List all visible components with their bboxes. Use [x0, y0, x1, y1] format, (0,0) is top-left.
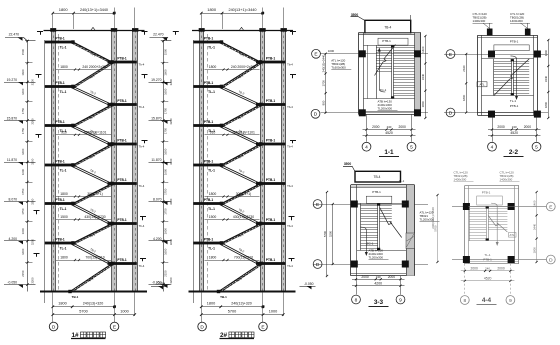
svg-text:3500: 3500 [344, 162, 352, 166]
bubble extension lines plan 2-2 [492, 115, 494, 141]
svg-text:Tb-4: Tb-4 [139, 264, 145, 268]
bottom dim rows plan 3-3 [352, 279, 405, 281]
side dim plan 2-2 x548.3 [548, 40, 550, 118]
svg-text:1800: 1800 [60, 192, 68, 196]
svg-text:D: D [314, 112, 318, 118]
svg-text:240: 240 [376, 275, 381, 279]
svg-text:3200: 3200 [169, 118, 173, 125]
svg-text:3200: 3200 [30, 79, 34, 86]
svg-text:3440: 3440 [532, 223, 536, 230]
svg-text:5: 5 [410, 145, 413, 151]
left wall 2# stair detail [200, 30, 204, 292]
svg-text:240 2000+2x300: 240 2000+2x300 [231, 65, 256, 69]
grid bubble 5 plan 2-2 [532, 142, 541, 151]
svg-text:E: E [261, 324, 264, 330]
side dim plan 3-3 x327.0 [326, 192, 328, 276]
svg-text:PTB-1: PTB-1 [55, 159, 64, 163]
svg-text:TL600x300: TL600x300 [331, 65, 346, 69]
stair flight TB-2 1# stair detail [73, 62, 112, 87]
svg-text:Tb-4: Tb-4 [139, 144, 145, 148]
svg-text:9: 9 [509, 298, 512, 304]
svg-text:PTB-1: PTB-1 [266, 99, 275, 103]
svg-text:1600: 1600 [164, 228, 168, 235]
svg-text:3200: 3200 [169, 277, 173, 284]
svg-text:D: D [449, 110, 453, 116]
svg-text:PTB-1: PTB-1 [204, 159, 213, 163]
svg-text:1460: 1460 [421, 46, 425, 53]
break line plan 2-2 [494, 59, 529, 96]
svg-text:3200: 3200 [169, 238, 173, 245]
svg-text:TB-4: TB-4 [384, 26, 391, 30]
svg-text:Tb-4: Tb-4 [287, 105, 293, 109]
roof slab line 1# stair detail [44, 30, 145, 32]
svg-text:240(13+1)=3440: 240(13+1)=3440 [431, 207, 435, 229]
svg-text:4520: 4520 [385, 131, 393, 135]
break line plan 1-1 [375, 45, 396, 76]
mid landing PTB-1 right 1# stair detail [108, 61, 137, 64]
treads left flight plan 4-4 [469, 208, 486, 210]
stair flight TB-4 1# stair detail [73, 105, 112, 126]
interior dim 2# stair detail y260.0 [205, 260, 260, 262]
svg-text:1600: 1600 [21, 168, 25, 175]
right wall 1# stair detail [133, 30, 137, 292]
mid landing PTB-4 right 2# stair detail [256, 182, 285, 185]
bubble extension lines plan 4-4 [464, 264, 466, 295]
grid bubble D plan 4-4 [546, 255, 555, 264]
svg-text:TB-1: TB-1 [72, 295, 79, 299]
svg-text:3200: 3200 [30, 158, 34, 165]
svg-text:5: 5 [535, 145, 538, 151]
stair flight TB-3 2# stair detail [222, 87, 261, 105]
grid bubble E plan 3-3 [313, 200, 322, 209]
column plan 2-2 2 [534, 51, 541, 58]
grid bubble 8 plan 4-4 [460, 296, 469, 305]
svg-text:ATL: ATL [510, 233, 515, 237]
svg-text:1800: 1800 [60, 256, 68, 260]
svg-text:910: 910 [210, 130, 216, 134]
svg-text:1000: 1000 [269, 309, 277, 313]
column plan 1-1 4 [414, 109, 421, 116]
direction arrow plan 3-3 [360, 227, 366, 255]
svg-text:D: D [200, 324, 204, 330]
grid line D plan 2-2 [444, 112, 548, 114]
svg-text:PTB-1: PTB-1 [204, 198, 213, 202]
ground line 1# stair detail [40, 291, 147, 293]
stair flight TB-1 2# stair detail [222, 204, 261, 224]
svg-text:D: D [316, 262, 320, 268]
svg-text:1400x300: 1400x300 [500, 177, 513, 181]
column plan 2-2 1 [488, 51, 495, 58]
svg-text:2000: 2000 [471, 267, 479, 271]
direction arrow plan 4-4 [491, 203, 497, 245]
interior dim 2# stair detail y69.5 [205, 69, 260, 71]
side dim plan 4-4 x536.6 [536, 192, 538, 262]
interior dim 2# stair detail y219.5 [205, 219, 260, 221]
svg-text:PTB-1: PTB-1 [510, 104, 519, 108]
svg-text:PTB-1: PTB-1 [483, 257, 492, 261]
svg-text:240: 240 [387, 125, 392, 129]
svg-text:3200: 3200 [30, 198, 34, 205]
svg-text:1600: 1600 [164, 148, 168, 155]
plan 1-1 well inner line [367, 45, 369, 99]
svg-text:8: 8 [463, 298, 466, 304]
svg-text:240 2000+2x300: 240 2000+2x300 [82, 65, 107, 69]
svg-text:19.270: 19.270 [151, 78, 161, 82]
stair well edges plan 2-2 [493, 59, 495, 96]
svg-text:PTB-1: PTB-1 [204, 237, 213, 241]
stair flight TB-3 2# stair detail [222, 243, 261, 264]
treads right flight plan 2-2 [513, 61, 529, 63]
svg-text:2000: 2000 [497, 125, 505, 129]
svg-text:1600: 1600 [21, 88, 25, 95]
svg-text:1600: 1600 [21, 148, 25, 155]
svg-text:1650(13)=1101: 1650(13)=1101 [232, 130, 255, 134]
floor landing PTB-3 left 1# stair detail [45, 124, 73, 127]
floor landing PTB-3 left 2# stair detail [193, 124, 221, 127]
svg-text:TL-1: TL-1 [208, 246, 215, 250]
svg-text:1000: 1000 [328, 49, 335, 53]
bottom dim row1 1# stair detail [53, 306, 115, 308]
stair well edges plan 3-3 [360, 203, 362, 250]
svg-text:11.870: 11.870 [7, 158, 17, 162]
svg-text:Tb-4: Tb-4 [139, 184, 145, 188]
svg-text:Tb-4: Tb-4 [287, 62, 293, 66]
middle wall 1# stair detail [112, 30, 116, 292]
svg-text:PTB-1: PTB-1 [510, 40, 519, 44]
handrail line 1# stair detail [58, 34, 60, 290]
svg-text:3200: 3200 [169, 158, 173, 165]
svg-text:1800: 1800 [209, 65, 217, 69]
svg-text:ZC-1: ZC-1 [380, 88, 387, 92]
svg-text:1600: 1600 [21, 248, 25, 255]
svg-text:1600: 1600 [164, 168, 168, 175]
extension line 2# stair detail [193, 40, 195, 303]
svg-text:1800: 1800 [207, 301, 215, 305]
treads right flight plan 4-4 [488, 208, 507, 210]
svg-text:PTB-1: PTB-1 [55, 237, 64, 241]
svg-text:1800: 1800 [421, 101, 425, 108]
svg-text:700(13)=910: 700(13)=910 [85, 256, 104, 260]
bottom dim rows plan 1-1 [363, 129, 416, 131]
svg-text:Tb-4: Tb-4 [139, 105, 145, 109]
svg-text:Tb-4: Tb-4 [287, 264, 293, 268]
svg-text:1600: 1600 [164, 248, 168, 255]
svg-text:2150: 2150 [21, 270, 25, 277]
svg-text:1750: 1750 [164, 127, 168, 134]
side dim plan 4-4 x437.5 [437, 195, 439, 262]
grid bubble E plan 1-1 [312, 49, 321, 58]
grid bubble 8 plan 3-3 [352, 295, 361, 304]
svg-text:3440: 3440 [544, 75, 548, 82]
elevation markers 1# stair detail [4, 78, 25, 86]
svg-text:1800: 1800 [544, 101, 548, 108]
stair flight TB-4 2# stair detail [219, 264, 261, 292]
bottom dim rows plan 4-4 [461, 270, 515, 272]
svg-text:8.070: 8.070 [9, 198, 18, 202]
side dim plan 3-3 x332.8 [332, 204, 334, 264]
grid bubble 4 plan 1-1 [362, 142, 371, 151]
svg-text:3200: 3200 [169, 79, 173, 86]
svg-text:D: D [52, 324, 56, 330]
svg-text:PTB-1: PTB-1 [372, 190, 381, 194]
mid landing PTB-2 right 2# stair detail [256, 103, 285, 106]
svg-text:1800: 1800 [60, 65, 68, 69]
svg-text:PTB-1: PTB-1 [117, 99, 126, 103]
floor landing PTB-2 left 2# stair detail [193, 85, 221, 88]
svg-text:TL-1: TL-1 [60, 246, 67, 250]
svg-text:1500: 1500 [164, 48, 168, 55]
svg-text:PTB-1: PTB-1 [266, 258, 275, 262]
svg-text:PTB-1: PTB-1 [117, 56, 126, 60]
svg-text:5700: 5700 [228, 309, 236, 313]
column plan 2-2 3 [488, 111, 495, 118]
svg-text:D: D [549, 257, 553, 263]
svg-text:240: 240 [512, 125, 517, 129]
svg-text:1400x300: 1400x300 [454, 177, 467, 181]
column plan 4-4 4 [508, 256, 515, 263]
ATL box plan 4-4 [509, 233, 517, 238]
stair flight TB-1 2# stair detail [222, 126, 261, 145]
landing beam outline plan 1-1 [378, 38, 408, 45]
svg-text:1000: 1000 [120, 309, 128, 313]
svg-text:1400x300: 1400x300 [510, 19, 523, 23]
svg-text:1600: 1600 [21, 228, 25, 235]
svg-text:E: E [314, 52, 317, 58]
svg-text:1800: 1800 [532, 247, 536, 254]
slab level symbols left [36, 75, 42, 78]
svg-text:ATL: ATL [479, 83, 484, 87]
svg-text:E: E [549, 204, 552, 210]
svg-text:19.270: 19.270 [7, 78, 17, 82]
mid landing PTB-5 right 1# stair detail [108, 222, 137, 225]
svg-text:TL-1: TL-1 [208, 207, 215, 211]
svg-text:TL-1: TL-1 [510, 99, 517, 103]
grid line E plan 1-1 [321, 53, 429, 55]
svg-text:4200: 4200 [374, 282, 382, 286]
svg-text:8.070: 8.070 [153, 198, 162, 202]
left wall 1# stair detail [51, 30, 55, 292]
interior dim 1# stair detail y134.8 [56, 134, 111, 136]
svg-text:PTB-1: PTB-1 [266, 218, 275, 222]
svg-text:3440: 3440 [421, 73, 425, 80]
svg-text:TL-1: TL-1 [60, 90, 67, 94]
floor landing PTB-5 left 1# stair detail [45, 202, 73, 205]
svg-text:PTB-1: PTB-1 [55, 120, 64, 124]
mid landing PTB-3 right 2# stair detail [256, 143, 285, 146]
plan 3-3 top flight box [355, 171, 401, 182]
svg-text:11.870: 11.870 [151, 158, 161, 162]
ground line 2# stair detail [189, 291, 296, 293]
svg-text:Tb-4: Tb-4 [287, 184, 293, 188]
grid bubble D plan 3-3 [313, 260, 322, 269]
bubble extension lines plan 3-3 [356, 276, 358, 295]
svg-text:TB-4: TB-4 [374, 175, 381, 179]
bottom dim row1 2# stair detail [201, 306, 263, 308]
svg-text:240(13)+320: 240(13)+320 [83, 301, 103, 305]
column plan 1-1 3 [359, 109, 366, 116]
plan 3-3 wall hatch [406, 233, 415, 249]
stair flight TB-2 2# stair detail [222, 224, 261, 244]
svg-text:1750: 1750 [164, 188, 168, 195]
mid landing PTB-3 right 1# stair detail [108, 143, 137, 146]
interior dim 1# stair detail y219.5 [56, 219, 111, 221]
stair flight TB-1 1# stair detail [73, 204, 112, 224]
svg-text:ZC-1: ZC-1 [367, 242, 374, 246]
grid bubble 4 plan 2-2 [488, 142, 497, 151]
svg-text:8: 8 [355, 297, 358, 303]
mid landing PTB-5 right 2# stair detail [256, 222, 285, 225]
svg-text:1750: 1750 [21, 208, 25, 215]
column plan 1-1 1 [359, 50, 366, 57]
bubble extension lines plan 1-1 [366, 114, 368, 141]
svg-text:240(13)+320: 240(13)+320 [231, 301, 251, 305]
bottom dim rows plan 2-2 [488, 129, 541, 131]
svg-text:4520: 4520 [510, 131, 518, 135]
floor landing PTB-5 left 2# stair detail [193, 202, 221, 205]
svg-text:1650(13)=1101: 1650(13)=1101 [84, 130, 107, 134]
stair flight TB-4 1# stair detail [70, 264, 112, 292]
svg-text:E: E [113, 324, 116, 330]
stair flight TB-4 2# stair detail [222, 184, 261, 204]
handrail line 2# stair detail [207, 34, 209, 290]
grid bubble D plan 1-1 [311, 109, 320, 118]
middle wall 2# stair detail [260, 30, 264, 292]
mid landing PTB-2 right 1# stair detail [108, 103, 137, 106]
svg-text:TL-1: TL-1 [399, 179, 405, 183]
floor landing PTB-2 left 1# stair detail [45, 85, 73, 88]
bottom dim row2 1# stair detail [53, 314, 135, 316]
grid line D plan 3-3 [313, 264, 428, 266]
outer walls plan 2-2 [478, 35, 538, 37]
landing beam outline plan 2-2 [494, 45, 529, 51]
outer walls plan 1-1 [358, 33, 421, 35]
svg-text:1-1: 1-1 [384, 149, 394, 156]
svg-text:Tb-4: Tb-4 [287, 144, 293, 148]
grid line E plan 4-4 [452, 206, 547, 208]
grid bubble E 2# stair detail [259, 322, 268, 331]
svg-text:-0.050: -0.050 [152, 280, 162, 284]
grid bubble E plan 4-4 [546, 202, 555, 211]
svg-text:1800: 1800 [462, 94, 466, 101]
svg-text:1600: 1600 [164, 69, 168, 76]
slab symbols roof 1# stair detail [37, 32, 43, 35]
stair well edges plan 4-4 [469, 206, 471, 241]
grid line D plan 1-1 [321, 112, 429, 114]
landing beam outline plan 3-3 [366, 196, 392, 203]
stair flight TB-2 2# stair detail [222, 62, 261, 87]
column plan 3-3 1 [351, 201, 358, 208]
top dim line 2# stair detail [201, 13, 262, 15]
direction arrow plan 2-2 [511, 56, 517, 99]
svg-text:4520: 4520 [484, 277, 492, 281]
grid bubble D plan 2-2 [446, 108, 455, 117]
svg-text:Tb-4: Tb-4 [139, 62, 145, 66]
treads right flight plan 3-3 [379, 205, 391, 207]
svg-text:910: 910 [61, 130, 67, 134]
side dim plan 1-1 x325.6 [325, 54, 327, 113]
column plan 1-1 2 [414, 50, 421, 57]
svg-text:TL200x300: TL200x300 [378, 106, 393, 110]
svg-text:22.470: 22.470 [9, 33, 19, 37]
svg-text:PTB-1: PTB-1 [117, 258, 126, 262]
floor landing PTB-6 left 1# stair detail [45, 242, 73, 245]
svg-text:PTB-1: PTB-1 [55, 36, 64, 40]
svg-text:1800: 1800 [207, 7, 217, 12]
svg-text:E: E [316, 202, 319, 208]
svg-text:TL-1: TL-1 [208, 90, 215, 94]
svg-text:PTB-1: PTB-1 [55, 81, 64, 85]
svg-text:3200: 3200 [329, 230, 333, 237]
svg-text:2000: 2000 [524, 125, 532, 129]
svg-text:1800: 1800 [209, 192, 217, 196]
stair flight TB-3 1# stair detail [73, 243, 112, 264]
svg-text:E: E [449, 52, 452, 58]
elevation markers 2# stair detail [149, 78, 170, 86]
svg-text:TL-1: TL-1 [208, 45, 215, 49]
column plan 2-2 4 [534, 111, 541, 118]
grid extension lines 2# stair detail [201, 292, 203, 322]
svg-text:1750: 1750 [164, 208, 168, 215]
grid bubble D 2# stair detail [198, 322, 207, 331]
svg-text:240(13+1)=3440: 240(13+1)=3440 [80, 8, 108, 12]
side dim plan 1-1 x425.4 [425, 36, 427, 118]
right wall 2# stair detail [282, 30, 286, 292]
mid landing PTB-6 right 1# stair detail [108, 262, 137, 265]
svg-text:TL-1: TL-1 [484, 253, 491, 257]
svg-text:PTB-1: PTB-1 [204, 120, 213, 124]
svg-text:1600: 1600 [21, 69, 25, 76]
svg-text:TL-1: TL-1 [208, 168, 215, 172]
column plan 4-4 2 [508, 203, 515, 210]
break line plan 4-4 [488, 216, 507, 233]
stair flight TB-1 1# stair detail [73, 126, 112, 145]
bottom dim row2 2# stair detail [201, 314, 283, 316]
stair flight TB-1 1# stair detail [73, 42, 112, 62]
grid bubble E plan 2-2 [446, 50, 455, 59]
floor landing PTB-4 left 2# stair detail [193, 164, 221, 167]
grid line D plan 4-4 [452, 259, 547, 261]
svg-text:700(13)=910: 700(13)=910 [234, 256, 253, 260]
stair flight TB-3 1# stair detail [73, 165, 112, 184]
svg-text:1750: 1750 [21, 107, 25, 114]
svg-text:1600: 1600 [164, 88, 168, 95]
grid bubble E 1# stair detail [110, 322, 119, 331]
svg-text:Tb-4: Tb-4 [287, 224, 293, 228]
stair flight TB-3 2# stair detail [222, 165, 261, 184]
column plan 3-3 4 [402, 261, 409, 268]
plan 1-1 box corner tick [410, 15, 412, 20]
svg-text:1750: 1750 [21, 127, 25, 134]
interior dim 1# stair detail y260.0 [56, 260, 111, 262]
svg-text:1460: 1460 [532, 200, 536, 207]
svg-text:PTB-1: PTB-1 [204, 36, 213, 40]
svg-text:1750: 1750 [21, 188, 25, 195]
svg-text:TL-1: TL-1 [60, 45, 67, 49]
svg-text:3200: 3200 [30, 277, 34, 284]
mid landing PTB-4 right 1# stair detail [108, 182, 137, 185]
svg-text:2000: 2000 [399, 125, 407, 129]
flight divider plan 1-1 [391, 46, 393, 98]
svg-text:1400x300: 1400x300 [473, 19, 486, 23]
floor landing PTB-1 left 2# stair detail [193, 41, 221, 44]
svg-text:240: 240 [485, 267, 490, 271]
svg-text:2640: 2640 [462, 65, 466, 72]
stair flight TB-2 2# stair detail [222, 144, 261, 165]
svg-text:-0.050: -0.050 [304, 282, 314, 286]
grid bubble D 1# stair detail [49, 322, 58, 331]
interior dim 1# stair detail y69.5 [56, 69, 111, 71]
svg-text:-0.050: -0.050 [7, 280, 17, 284]
